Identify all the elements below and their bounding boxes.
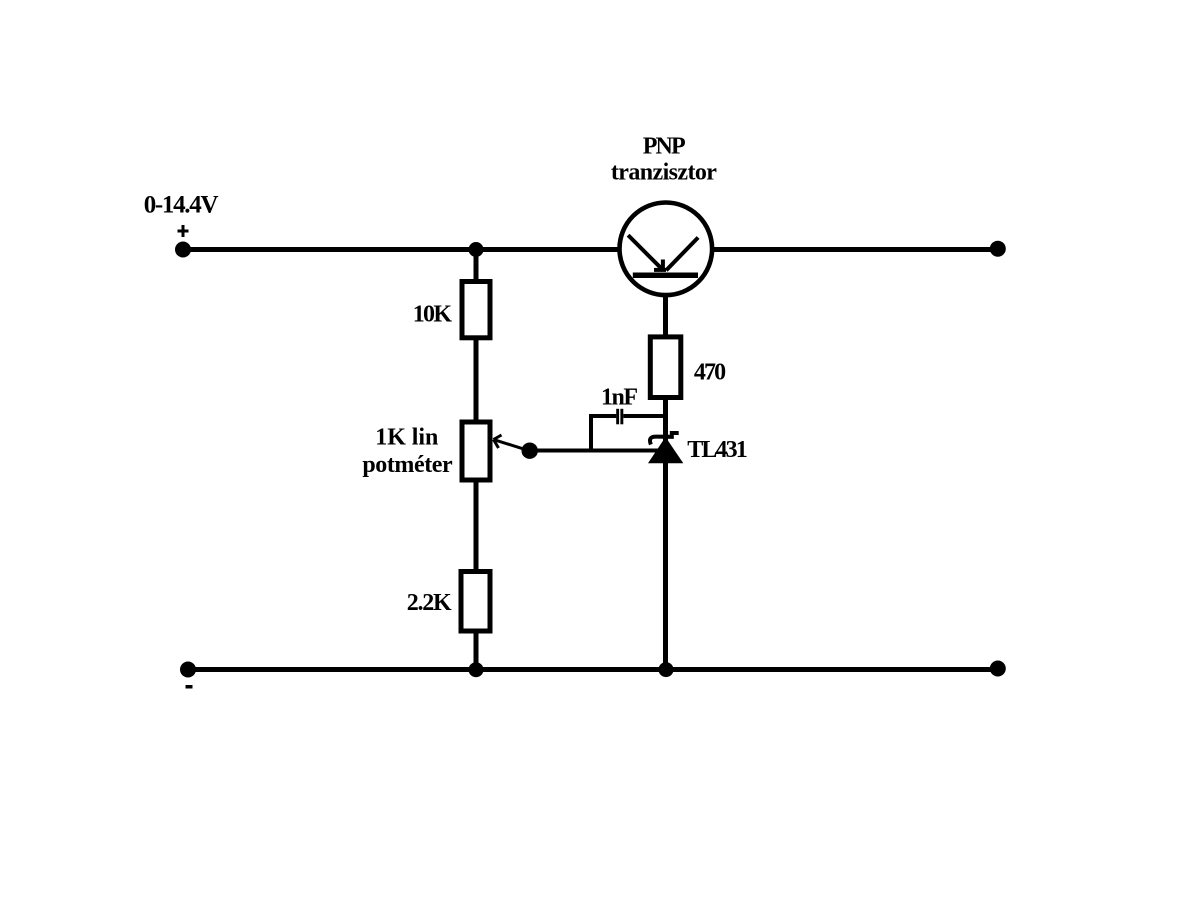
wire: transistor collector branch vertical: [663, 293, 668, 669]
svg-text:2.2K: 2.2K: [407, 590, 452, 616]
potentiometer wiper arrowhead: [494, 435, 502, 440]
svg-text:potméter: potméter: [362, 452, 453, 478]
transistor Q1 emitter diagonal with arrow: [628, 235, 663, 270]
svg-text:PNP: PNP: [643, 133, 686, 159]
node: bottom-right terminal dot: [990, 661, 1006, 677]
svg-text:10K: 10K: [413, 301, 453, 327]
node: wiper junction dot: [522, 443, 538, 459]
svg-text:1nF: 1nF: [601, 385, 638, 411]
node: top divider junction dot: [469, 242, 484, 257]
wire: capacitor branch vertical: [589, 415, 593, 452]
node: top-right terminal dot: [990, 241, 1006, 257]
wire: wiper to TL431 reference: [529, 449, 660, 453]
svg-text:tranzisztor: tranzisztor: [611, 159, 717, 185]
potentiometer P1 1K body: [462, 422, 490, 480]
resistor R2 2.2K body: [461, 572, 490, 632]
transistor Q1 PNP circle: [620, 203, 713, 296]
wire: left divider branch vertical: [474, 249, 479, 669]
svg-text:1K lin: 1K lin: [375, 424, 438, 450]
capacitor C1 right plate: [620, 409, 623, 425]
TL431 U1 triangle: [648, 437, 683, 463]
wire: bottom negative rail: [186, 667, 999, 672]
resistor R1 10K body: [462, 282, 490, 338]
label minus sign: [186, 685, 193, 689]
svg-text:470: 470: [694, 359, 726, 385]
resistor R3 470 body: [650, 337, 681, 398]
svg-text:TL431: TL431: [687, 437, 747, 463]
capacitor C1 left plate: [616, 409, 619, 425]
potentiometer wiper arrow line: [494, 440, 529, 451]
transistor Q1 collector diagonal: [666, 238, 698, 271]
transistor Q1 base bar: [633, 273, 698, 279]
node: top-left terminal dot: [175, 242, 191, 258]
label plus sign: [178, 230, 189, 233]
wire: capacitor branch horizontal right: [623, 414, 665, 418]
svg-text:0-14.4V: 0-14.4V: [144, 191, 219, 218]
TL431 U1 cathode bar with hooks: [650, 433, 679, 445]
wire: capacitor branch horizontal left: [589, 414, 616, 418]
node: bottom divider junction dot: [469, 662, 484, 677]
node: bottom-left terminal dot: [180, 662, 196, 678]
node: bottom TL431 junction dot: [659, 662, 674, 677]
wire: top positive rail: [183, 247, 999, 252]
